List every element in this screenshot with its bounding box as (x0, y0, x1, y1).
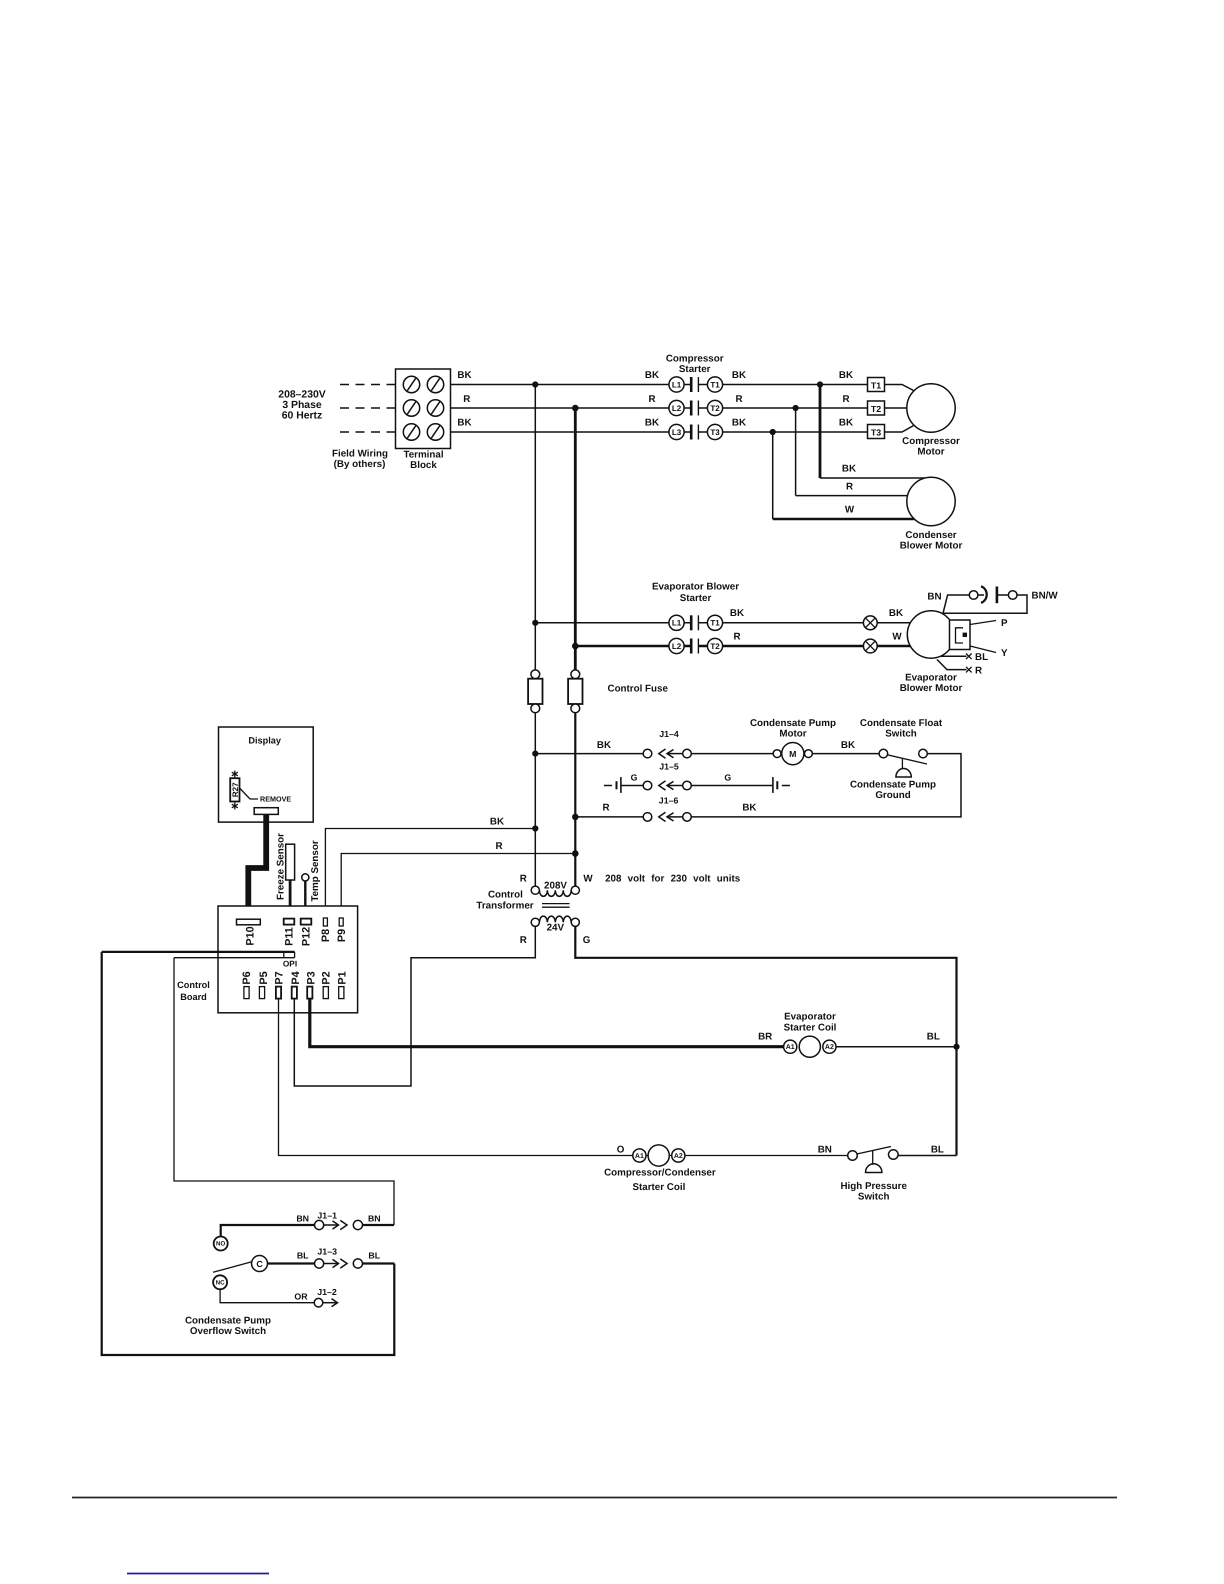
svg-text:OPI: OPI (283, 959, 297, 969)
svg-text:Control: Control (177, 980, 210, 990)
svg-text:Starter: Starter (680, 593, 712, 604)
svg-text:BK: BK (841, 740, 855, 751)
svg-text:T3: T3 (710, 428, 720, 437)
wire T1 box to compressor motor (885, 385, 916, 392)
freeze sensor (275, 833, 294, 919)
svg-text:P2: P2 (321, 971, 333, 984)
svg-text:P6: P6 (241, 971, 253, 984)
thermal overload indicator row1 (863, 616, 877, 630)
wire T2 row to T2 box (698, 407, 867, 409)
svg-text:BK: BK (732, 418, 746, 429)
svg-text:L2: L2 (672, 404, 682, 413)
wire phase 1 BK terminal block to compressor starter L1 (396, 384, 692, 386)
svg-text:208V: 208V (544, 881, 567, 892)
svg-text:P7: P7 (274, 971, 286, 984)
svg-text:Block: Block (410, 460, 437, 471)
ground symbol right J1-5 (773, 777, 790, 793)
svg-text:NO: NO (216, 1241, 225, 1248)
svg-text:BK: BK (597, 740, 611, 751)
wire J1-3 to loop (363, 1262, 395, 1264)
connector J1-2 (314, 1298, 337, 1307)
svg-text:L1: L1 (672, 380, 682, 389)
svg-text:A1: A1 (635, 1153, 644, 1160)
svg-text:BK: BK (490, 817, 504, 828)
wire indicator1 to evap motor (877, 622, 911, 624)
wire evap T1 to indicator row1 (698, 622, 863, 624)
run capacitor straight plate (996, 587, 999, 604)
junction dot J1-4 at x535 (532, 751, 538, 757)
svg-text:R: R (602, 803, 609, 814)
svg-text:T2: T2 (871, 404, 881, 414)
footer link underline (127, 1573, 269, 1575)
svg-text:Starter Coil: Starter Coil (632, 1182, 685, 1193)
control fuse F1 (528, 670, 542, 713)
wire R into condenser blower motor (796, 495, 908, 497)
svg-text:R: R (520, 935, 527, 946)
svg-text:P1: P1 (337, 971, 349, 984)
wire P7 to compressor condenser starter coil (279, 999, 853, 1156)
junction dot J1-6 at x575 (572, 814, 579, 821)
svg-text:Evaporator: Evaporator (784, 1012, 836, 1023)
svg-text:BN: BN (368, 1214, 381, 1224)
svg-text:BK: BK (730, 608, 744, 619)
thermal overload indicator row2 (863, 639, 877, 653)
asterisk below R27 (232, 803, 238, 810)
wire BK drop x820 to condenser blower motor (819, 385, 822, 479)
temp sensor (302, 840, 321, 919)
svg-text:Starter Coil: Starter Coil (784, 1022, 837, 1033)
svg-text:NC: NC (216, 1280, 225, 1287)
junction dot evap row2 (572, 643, 579, 650)
svg-text:R: R (648, 394, 655, 405)
wire OPI inner loop (174, 958, 394, 1225)
wire BN/W return to evap motor (944, 595, 1028, 613)
connector P8 (320, 918, 332, 942)
svg-text:A2: A2 (825, 1044, 834, 1051)
compressor condenser starter coil (633, 1145, 685, 1166)
svg-text:R: R (520, 874, 527, 885)
svg-text:Display: Display (248, 736, 282, 746)
svg-text:Y: Y (1001, 648, 1008, 659)
condenser blower motor (900, 477, 963, 551)
connector J1-6 (643, 812, 691, 821)
wire evaporator starter row2 from x575 (thick) (575, 645, 691, 647)
svg-text:BL: BL (975, 652, 988, 663)
junction dot phase3 at x772 (770, 429, 776, 435)
svg-text:Compressor: Compressor (666, 354, 724, 365)
OPI ribbon bottom wire (174, 957, 295, 959)
terminal block TB1 (396, 369, 451, 449)
svg-text:3 Phase: 3 Phase (282, 400, 322, 411)
condensate pump motor M (773, 743, 812, 765)
wire x575 below fuse to transformer (574, 713, 576, 886)
connector J1-3 (315, 1259, 363, 1268)
connector P11 (284, 919, 296, 946)
wire R secondary to P4 (294, 926, 535, 1086)
svg-text:BN: BN (927, 592, 941, 603)
svg-text:G: G (724, 773, 731, 783)
svg-text:Evaporator Blower: Evaporator Blower (652, 582, 739, 593)
wire OPI outer loop left (102, 952, 395, 1355)
wire capacitor left stub (978, 594, 984, 596)
contact L3-T3 (669, 424, 723, 439)
connector J1-4 (643, 749, 691, 758)
node Field Wiring (By others) label (332, 449, 388, 471)
asterisk above R27 (232, 771, 238, 778)
svg-text:J1–3: J1–3 (317, 1247, 337, 1257)
wire NC to J1-2 (220, 1289, 314, 1302)
OPI ribbon top wire (102, 951, 295, 953)
wire float switch right loop down (691, 754, 961, 817)
junction dot phase1 at x820 (817, 381, 823, 387)
svg-text:Blower Motor: Blower Motor (900, 541, 963, 552)
wire M to float switch (812, 753, 879, 755)
wire P3 to evaporator starter coil (thick) (310, 999, 790, 1047)
svg-text:G: G (583, 935, 591, 946)
connector P1 (337, 971, 349, 998)
svg-text:T1: T1 (710, 380, 720, 389)
svg-text:Condensate Float: Condensate Float (860, 718, 943, 729)
connector P5 (258, 971, 270, 998)
wire ground bar to J1-5 (621, 785, 643, 787)
node Terminal Block label (403, 450, 443, 472)
junction dot phase1 at x535 (532, 381, 538, 387)
wire BN from evap motor up to run capacitor (943, 595, 970, 614)
svg-text:60 Hertz: 60 Hertz (282, 411, 322, 422)
wire evaporator starter row1 from x535 (535, 622, 691, 624)
svg-text:Compressor/Condenser: Compressor/Condenser (604, 1167, 716, 1178)
compressor starter contacts M1 (666, 354, 868, 440)
svg-text:Condensate Pump: Condensate Pump (850, 780, 936, 791)
svg-text:Blower Motor: Blower Motor (900, 683, 963, 694)
wire high pressure switch to right bus (898, 1155, 956, 1157)
svg-text:OR: OR (294, 1292, 308, 1302)
wire J1-4 to condensate pump motor (691, 753, 773, 755)
svg-text:P11: P11 (284, 927, 296, 946)
svg-text:R: R (463, 394, 470, 405)
svg-text:J1–2: J1–2 (317, 1287, 337, 1297)
connector P7 (274, 971, 286, 998)
svg-text:P12: P12 (301, 927, 313, 946)
evaporator blower starter contact L2-T2 (669, 638, 723, 653)
svg-text:P10: P10 (245, 926, 257, 945)
junction dot BK at x535 (532, 825, 538, 831)
wire W into condenser blower motor (773, 518, 916, 520)
svg-text:Control Fuse: Control Fuse (608, 684, 669, 695)
high pressure switch (848, 1147, 898, 1173)
terminal box T1 (868, 378, 885, 392)
svg-text:Condensate Pump: Condensate Pump (185, 1316, 271, 1327)
resistor R27 (230, 778, 240, 801)
wire P9 R up and right to x575 (341, 854, 575, 919)
wire T1 row to T1 box (698, 384, 867, 386)
node 208-230V 3 Phase 60 Hertz source label (278, 390, 325, 422)
wire R from evap motor (937, 660, 967, 670)
svg-text:R: R (846, 482, 853, 493)
connector P2 (321, 971, 333, 998)
terminal box T3 (868, 425, 885, 439)
svg-text:P3: P3 (306, 971, 318, 984)
wire BL from evap motor (941, 655, 967, 657)
wire G secondary to right bus (575, 926, 956, 1155)
leader REMOVE (240, 788, 259, 799)
svg-text:Field Wiring: Field Wiring (332, 449, 388, 460)
evap motor terminal box (950, 620, 971, 650)
svg-text:BL: BL (297, 1251, 309, 1261)
svg-text:A1: A1 (786, 1044, 795, 1051)
junction dot phase2 at x575 (572, 405, 579, 412)
svg-text:Compressor: Compressor (902, 436, 960, 447)
svg-text:BR: BR (758, 1031, 772, 1042)
connector P9 (336, 918, 348, 942)
connector J1-5 (643, 781, 691, 790)
wire T2 box to compressor motor (885, 407, 908, 409)
svg-text:Motor: Motor (779, 729, 806, 740)
junction dot R at x575 (572, 850, 579, 857)
svg-text:Switch: Switch (885, 729, 917, 740)
junction dot right bus evap coil row (953, 1044, 959, 1050)
wire capacitor right stub (997, 594, 1009, 596)
connector P4 (290, 971, 302, 998)
svg-text:BK: BK (839, 418, 853, 429)
run capacitor curved plate (981, 586, 987, 603)
wire phase 2 R terminal block to compressor starter L2 (396, 407, 692, 409)
svg-text:W: W (892, 632, 902, 643)
svg-text:BK: BK (732, 370, 746, 381)
wire T3 row to T3 box (698, 431, 867, 433)
svg-text:T2: T2 (710, 404, 720, 413)
wire phase 3 BK terminal block to compressor starter L3 (396, 431, 692, 433)
page rule line (72, 1497, 1117, 1499)
svg-text:L3: L3 (672, 428, 682, 437)
wire evap coil to right bus (829, 1046, 956, 1048)
svg-text:J1–5: J1–5 (659, 762, 679, 772)
wire dashed field wiring phase 2 (340, 407, 396, 409)
svg-text:P4: P4 (290, 971, 302, 984)
terminal box T2 (868, 401, 885, 415)
svg-text:Condensate Pump: Condensate Pump (750, 718, 836, 729)
wire T3 box to compressor motor (885, 425, 916, 433)
display board box (219, 727, 314, 822)
svg-text:W: W (845, 505, 855, 516)
svg-text:Overflow Switch: Overflow Switch (190, 1326, 266, 1337)
evaporator blower starter contact L1-T1 (669, 615, 723, 630)
svg-text:Evaporator: Evaporator (905, 673, 957, 684)
wire dashed field wiring phase 3 (340, 431, 396, 433)
display ribbon connector (254, 808, 278, 815)
svg-text:L2: L2 (672, 642, 682, 651)
svg-text:P5: P5 (258, 971, 270, 984)
junction dot evap row1 (532, 620, 538, 626)
svg-text:O: O (617, 1144, 625, 1155)
run capacitor terminal circle right (1008, 591, 1017, 600)
svg-text:BL: BL (931, 1144, 944, 1155)
wire W drop x772 to condenser blower motor (772, 432, 774, 519)
wire C to J1-3 (268, 1262, 315, 1264)
svg-text:P8: P8 (320, 929, 332, 942)
compressor motor (902, 384, 960, 458)
wire BK x535 to J1-4 (535, 753, 643, 755)
svg-text:BK: BK (457, 370, 471, 381)
wire x535 below fuse to transformer (534, 713, 536, 886)
svg-text:R: R (733, 632, 740, 643)
contact L2-T2 (669, 400, 723, 415)
wire R x575 to J1-6 (575, 816, 643, 818)
svg-text:BK: BK (457, 418, 471, 429)
svg-text:J1–4: J1–4 (659, 729, 679, 739)
connector P10 (237, 919, 261, 945)
svg-text:BK: BK (645, 370, 659, 381)
connector J1-1 (315, 1220, 363, 1229)
evaporator blower motor (900, 611, 963, 694)
svg-text:J1–6: J1–6 (659, 796, 679, 806)
svg-text:Starter: Starter (679, 364, 711, 375)
svg-text:BK: BK (839, 370, 853, 381)
svg-text:BN/W: BN/W (1032, 591, 1059, 602)
switch blade from C (213, 1262, 252, 1273)
svg-text:R: R (735, 394, 742, 405)
svg-text:L1: L1 (672, 619, 682, 628)
svg-text:T3: T3 (871, 427, 881, 437)
svg-text:R27: R27 (231, 782, 240, 797)
svg-text:BK: BK (742, 803, 756, 814)
connector P3 (306, 971, 318, 998)
svg-text:REMOVE: REMOVE (260, 795, 291, 804)
run capacitor terminal circle left (969, 591, 978, 600)
contact L1-T1 (669, 377, 723, 392)
control board box (177, 906, 357, 1013)
control transformer (531, 886, 579, 926)
svg-text:G: G (631, 773, 638, 783)
svg-text:High Pressure: High Pressure (840, 1181, 907, 1192)
svg-text:A2: A2 (674, 1153, 683, 1160)
svg-text:W 208 volt for 230 volt units: W 208 volt for 230 volt units (583, 874, 740, 885)
svg-text:R: R (975, 666, 982, 677)
svg-text:Ground: Ground (875, 790, 910, 801)
wire evap T2 to indicator row2 (thick) (698, 645, 863, 647)
svg-text:C: C (256, 1259, 263, 1269)
contact C common (252, 1256, 268, 1272)
wire BK into condenser blower motor (820, 477, 925, 479)
svg-text:BL: BL (927, 1031, 940, 1042)
svg-text:T1: T1 (710, 619, 720, 628)
svg-text:T1: T1 (871, 380, 881, 390)
svg-text:Control: Control (488, 890, 523, 901)
connector P12 (301, 919, 313, 947)
svg-text:Switch: Switch (858, 1192, 890, 1203)
ribbon cable display to P10 (248, 814, 266, 919)
x mark R (966, 667, 972, 673)
leader P (970, 621, 996, 625)
wire NO to J1-1 (221, 1225, 315, 1237)
ground symbol left J1-5 (604, 777, 621, 793)
wire J1-5 to right ground (691, 785, 773, 787)
svg-text:P: P (1001, 618, 1008, 629)
svg-text:(By others): (By others) (334, 459, 386, 470)
x mark BL (966, 654, 972, 660)
svg-text:Terminal: Terminal (403, 450, 443, 461)
svg-text:Freeze Sensor: Freeze Sensor (275, 833, 286, 900)
contact NO (214, 1237, 228, 1251)
evaporator starter coil (784, 1036, 836, 1057)
wire vertical R x575 phase2 down to control fuse (thick) (574, 408, 577, 670)
svg-text:BK: BK (842, 464, 856, 475)
contact NC (213, 1275, 227, 1289)
svg-text:Temp Sensor: Temp Sensor (310, 840, 321, 902)
svg-text:Condenser: Condenser (905, 530, 956, 541)
svg-text:M: M (789, 749, 796, 759)
wire vertical BK x535 phase1 down to control fuse (534, 385, 536, 671)
svg-text:BN: BN (818, 1144, 832, 1155)
connector P6 (241, 971, 253, 998)
svg-text:R: R (842, 394, 849, 405)
wire dashed field wiring phase 1 (340, 384, 396, 386)
control fuse F2 (568, 670, 582, 713)
leader Y (970, 646, 996, 653)
svg-text:T2: T2 (710, 642, 720, 651)
svg-text:BL: BL (368, 1251, 380, 1261)
junction dot phase2 at x795 (793, 405, 799, 411)
svg-text:P9: P9 (336, 929, 348, 942)
svg-text:J1–1: J1–1 (317, 1210, 337, 1220)
wire P8 BK up and right to x535 (325, 829, 535, 919)
wire indicator2 to evap motor (thick) (877, 645, 911, 647)
svg-text:Transformer: Transformer (476, 901, 533, 912)
OPI connector box (283, 952, 297, 969)
svg-text:208–230V: 208–230V (278, 390, 325, 401)
svg-text:R: R (495, 841, 502, 852)
svg-text:Motor: Motor (917, 447, 944, 458)
condensate float switch (879, 749, 927, 777)
svg-text:BK: BK (645, 418, 659, 429)
svg-text:BK: BK (889, 608, 903, 619)
svg-text:BN: BN (296, 1214, 309, 1224)
svg-text:24V: 24V (547, 923, 565, 934)
svg-text:Board: Board (180, 992, 207, 1002)
wire R drop x795 to condenser blower motor (795, 408, 797, 496)
wire J1-1 to loop (363, 1224, 395, 1226)
